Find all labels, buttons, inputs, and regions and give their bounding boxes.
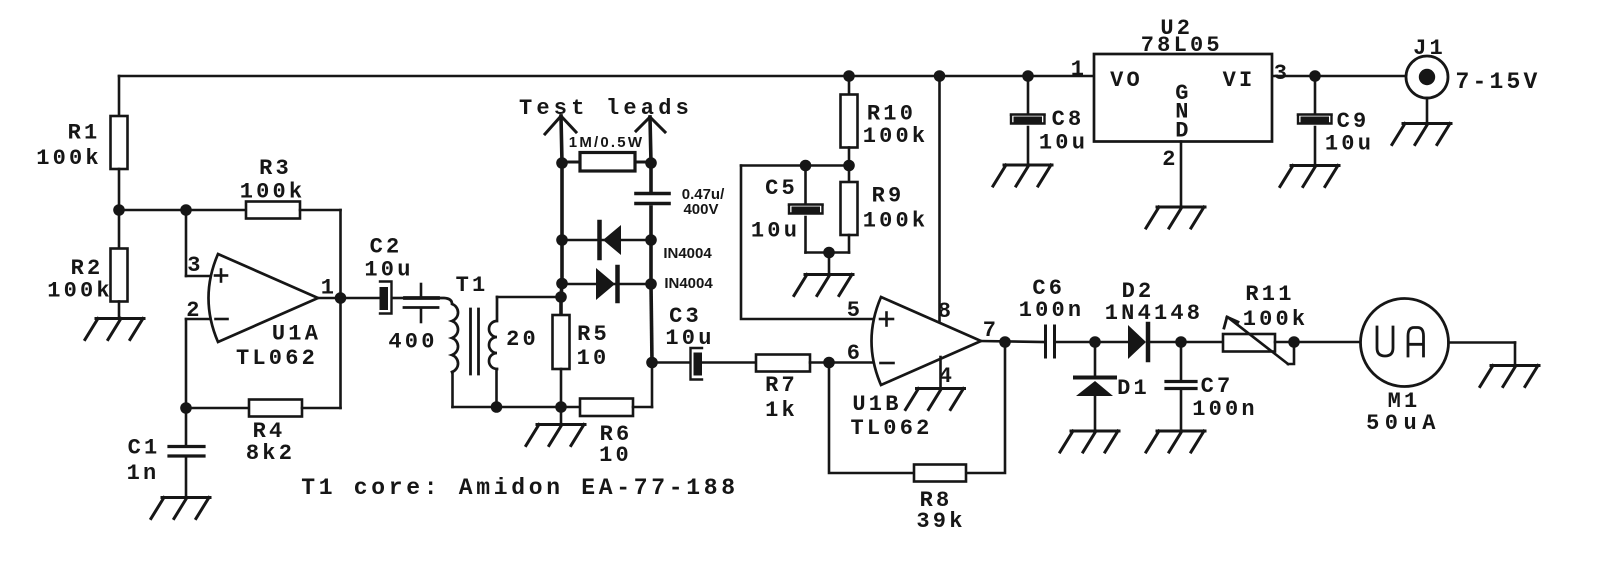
node R7/pin6/R8 bbox=[823, 357, 835, 369]
svg-text:10: 10 bbox=[599, 443, 632, 468]
svg-text:1N4148: 1N4148 bbox=[1105, 301, 1203, 326]
wire R1 to node bbox=[118, 169, 121, 210]
svg-text:C2: C2 bbox=[370, 235, 403, 260]
connector J1 bbox=[1406, 36, 1541, 98]
wire pin 8 supply drop bbox=[938, 76, 941, 322]
wire pin4 stub bbox=[939, 357, 942, 388]
node rail/C8 bbox=[1022, 70, 1034, 82]
svg-text:100k: 100k bbox=[36, 146, 102, 171]
svg-text:1k: 1k bbox=[765, 398, 798, 423]
svg-text:IN4004: IN4004 bbox=[663, 245, 712, 262]
wire C5 loop top bbox=[741, 164, 849, 167]
wire riser R6 to C3 node bbox=[651, 363, 654, 408]
node rail/R10 bbox=[843, 70, 855, 82]
transformer T1 core bbox=[471, 309, 479, 374]
svg-text:R5: R5 bbox=[577, 322, 610, 347]
ground U2 pin2 bbox=[1146, 207, 1205, 228]
svg-text:78L05: 78L05 bbox=[1141, 33, 1223, 58]
node op-amp input tap bbox=[180, 204, 192, 216]
svg-text:TL062: TL062 bbox=[236, 346, 318, 371]
node C5/R9 bottom ground tap bbox=[823, 247, 835, 259]
node D1 tap bbox=[1089, 336, 1101, 348]
node secondary/lead junction bbox=[555, 291, 567, 303]
capacitor C3 bbox=[652, 304, 756, 380]
node rail/C9 bbox=[1309, 70, 1321, 82]
svg-text:IN4004: IN4004 bbox=[664, 275, 713, 292]
svg-text:100n: 100n bbox=[1192, 397, 1258, 422]
meter M1 body bbox=[1361, 299, 1449, 437]
svg-text:100k: 100k bbox=[240, 180, 306, 205]
svg-text:1: 1 bbox=[1071, 57, 1087, 82]
ground pin4 bbox=[906, 389, 965, 410]
svg-text:R3: R3 bbox=[259, 156, 292, 181]
svg-text:10u: 10u bbox=[665, 326, 714, 351]
svg-text:10: 10 bbox=[577, 346, 610, 371]
svg-text:U1B: U1B bbox=[852, 392, 901, 417]
transformer T1 primary winding bbox=[388, 273, 488, 407]
svg-text:R1: R1 bbox=[68, 121, 101, 146]
resistor R5 bbox=[553, 315, 610, 407]
node C7 tap bbox=[1175, 336, 1187, 348]
diode D2 bbox=[1105, 279, 1223, 360]
svg-text:400: 400 bbox=[388, 330, 437, 355]
wire T1 secondary top to test lead bbox=[497, 296, 561, 299]
svg-text:7: 7 bbox=[983, 318, 999, 343]
svg-text:T1: T1 bbox=[456, 273, 489, 298]
wire U1A output bbox=[318, 297, 379, 300]
node R4/C1 junction bbox=[180, 402, 192, 414]
svg-text:8: 8 bbox=[938, 299, 954, 324]
ground under J1 bbox=[1392, 124, 1451, 145]
resistor R10 bbox=[841, 76, 929, 149]
svg-text:C7: C7 bbox=[1201, 374, 1234, 399]
resistor R9 bbox=[841, 148, 929, 253]
resistor R3 bbox=[240, 156, 306, 219]
svg-text:1M/0.5W: 1M/0.5W bbox=[569, 134, 644, 151]
label test leads bbox=[519, 96, 693, 121]
svg-text:100k: 100k bbox=[47, 279, 113, 304]
wire node to R3 bbox=[119, 209, 246, 212]
node R10/R9/C5 bbox=[843, 160, 855, 172]
svg-text:C9: C9 bbox=[1337, 109, 1370, 134]
wire T1 bottom bbox=[453, 406, 581, 409]
test lead left arrow bbox=[545, 116, 576, 134]
svg-text:100k: 100k bbox=[863, 209, 929, 234]
resistor 1M/0.5W bbox=[562, 134, 651, 171]
wire left test lead bbox=[561, 116, 562, 315]
svg-text:1n: 1n bbox=[127, 461, 160, 486]
resistor R1 bbox=[36, 116, 127, 171]
node C3 junction bbox=[646, 357, 658, 369]
ground under R2 bbox=[85, 302, 144, 340]
svg-text:7-15V: 7-15V bbox=[1455, 69, 1540, 95]
node T1 secondary bottom bbox=[491, 401, 503, 413]
svg-text:2: 2 bbox=[1162, 147, 1178, 172]
wire R3 to output riser bbox=[300, 210, 341, 298]
ground right of meter bbox=[1480, 366, 1539, 387]
ground under C9 bbox=[1280, 166, 1339, 187]
svg-text:J1: J1 bbox=[1413, 36, 1446, 61]
node diode upper right bbox=[645, 234, 657, 246]
wire R8 feedback loop bbox=[829, 342, 1005, 473]
diode 1N4004 lower bbox=[562, 267, 713, 301]
wire right test lead upper bbox=[650, 117, 651, 192]
svg-text:C1: C1 bbox=[128, 436, 161, 461]
svg-text:R7: R7 bbox=[765, 373, 798, 398]
ground under C8 bbox=[993, 165, 1052, 186]
wire right lead lower bbox=[651, 284, 652, 363]
wire right test lead middle bbox=[649, 207, 653, 284]
wire C5/R9 bottom bbox=[806, 251, 850, 254]
svg-text:3: 3 bbox=[187, 253, 203, 278]
node R1/R2/R3 junction bbox=[113, 204, 125, 216]
IC U2 78L05 bbox=[1071, 16, 1290, 172]
svg-text:10u: 10u bbox=[1325, 132, 1374, 157]
svg-text:6: 6 bbox=[847, 341, 863, 366]
svg-text:100k: 100k bbox=[1243, 307, 1309, 332]
capacitor C8 bbox=[1011, 76, 1088, 164]
node rail/pin8 bbox=[934, 70, 946, 82]
svg-text:D1: D1 bbox=[1117, 376, 1150, 401]
node C5 top bbox=[800, 160, 812, 172]
capacitor C1 bbox=[127, 408, 204, 496]
resistor R8 bbox=[914, 465, 966, 535]
svg-text:VO: VO bbox=[1110, 68, 1143, 93]
svg-text:39k: 39k bbox=[916, 509, 965, 534]
svg-text:3: 3 bbox=[1274, 61, 1290, 86]
node U1A output bbox=[335, 292, 347, 304]
ground under C1 bbox=[151, 498, 210, 519]
node U1B output bbox=[999, 336, 1011, 348]
wire pin2 stub bbox=[186, 319, 214, 408]
wire left rail drop to R1 bbox=[118, 76, 121, 116]
svg-text:U1A: U1A bbox=[272, 322, 321, 347]
op-amp U1A bbox=[186, 253, 337, 371]
wire U1B output bbox=[981, 341, 1045, 342]
capacitor C7 bbox=[1166, 342, 1258, 430]
node R11 wiper bbox=[1288, 336, 1300, 348]
diode D1 bbox=[1075, 342, 1150, 430]
wire C6 to D2 bbox=[1055, 341, 1128, 344]
wire top supply rail bbox=[119, 75, 1094, 78]
svg-text:8k2: 8k2 bbox=[246, 441, 295, 466]
svg-text:R9: R9 bbox=[872, 184, 905, 209]
svg-text:D: D bbox=[1175, 119, 1188, 144]
wire meter to ground bbox=[1449, 343, 1516, 365]
svg-text:R11: R11 bbox=[1245, 282, 1294, 307]
transformer T1 secondary winding bbox=[489, 297, 539, 407]
svg-text:C5: C5 bbox=[765, 176, 798, 201]
node diode upper left bbox=[556, 234, 568, 246]
capacitor C2 bbox=[364, 235, 413, 314]
svg-text:20: 20 bbox=[506, 327, 539, 352]
svg-text:10u: 10u bbox=[1039, 131, 1088, 156]
node diode lower left bbox=[556, 278, 568, 290]
diode 1N4004 upper bbox=[562, 222, 712, 262]
svg-text:Test leads: Test leads bbox=[519, 96, 693, 121]
node R5 bottom / ground bbox=[555, 401, 567, 413]
wire pin3 stub bbox=[186, 210, 214, 276]
resistor R2 bbox=[47, 210, 127, 304]
resistor R7 bbox=[756, 355, 876, 424]
svg-text:400V: 400V bbox=[683, 201, 718, 218]
capacitor C6 bbox=[1019, 276, 1085, 357]
wire U2 pin2 stem bbox=[1180, 142, 1183, 207]
wire C5 loop left and bottom bbox=[741, 166, 876, 320]
svg-text:2: 2 bbox=[186, 298, 202, 323]
ground under D1 bbox=[1060, 431, 1119, 452]
op-amp U1B bbox=[847, 297, 999, 441]
ground under bottom wire bbox=[526, 407, 585, 446]
resistor R4 bbox=[186, 298, 341, 466]
note T1 core bbox=[301, 475, 739, 501]
capacitor C5 bbox=[751, 166, 823, 253]
svg-text:5: 5 bbox=[847, 298, 863, 323]
svg-text:T1 core: Amidon EA-77-188: T1 core: Amidon EA-77-188 bbox=[301, 475, 739, 501]
svg-text:50uA: 50uA bbox=[1366, 411, 1441, 436]
node left lead / 1M bbox=[556, 157, 568, 169]
svg-text:100n: 100n bbox=[1019, 298, 1085, 323]
svg-text:C8: C8 bbox=[1052, 107, 1085, 132]
node right lead / 1M bbox=[645, 157, 657, 169]
wire J1 to ground bbox=[1426, 98, 1429, 123]
ground under C5/R9 bbox=[794, 253, 853, 296]
node diode lower right bbox=[645, 278, 657, 290]
capacitor C2 second plate pair bbox=[404, 284, 438, 322]
resistor R6 bbox=[580, 399, 652, 469]
svg-text:TL062: TL062 bbox=[850, 416, 932, 441]
test lead right arrow bbox=[636, 117, 665, 132]
ground under C7 bbox=[1146, 431, 1205, 452]
wire U2 pin3 to J1 bbox=[1272, 75, 1406, 78]
svg-text:10u: 10u bbox=[364, 258, 413, 283]
svg-text:VI: VI bbox=[1223, 68, 1256, 93]
potentiometer R11 bbox=[1223, 282, 1361, 364]
capacitor C9 bbox=[1298, 76, 1374, 165]
svg-text:10u: 10u bbox=[751, 219, 800, 244]
capacitor 0.47u/400V bbox=[636, 186, 725, 218]
svg-text:R10: R10 bbox=[867, 102, 916, 127]
svg-text:100k: 100k bbox=[863, 124, 929, 149]
svg-text:R2: R2 bbox=[71, 256, 104, 281]
